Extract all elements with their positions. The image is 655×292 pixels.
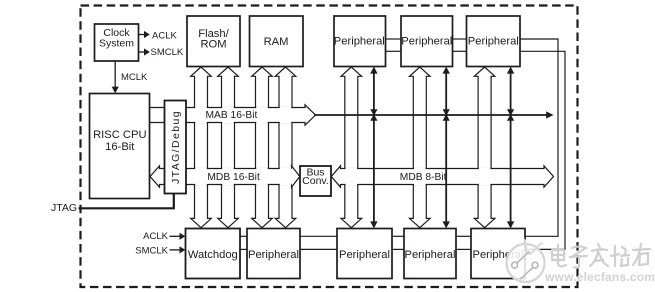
wire bottom chain lower seg1 [240, 248, 247, 250]
box Peripheral bot3 [404, 229, 456, 279]
svg-text:System: System [99, 37, 134, 49]
node open bus crossings (white patches) [195, 107, 490, 186]
svg-text:16-Bit: 16-Bit [105, 141, 135, 153]
wire memory bus arrow col4 (RAM-Peripheral) [275, 67, 296, 228]
wire bottom chain upper seg3 [392, 235, 404, 237]
svg-text:RAM: RAM [264, 36, 289, 48]
box Peripheral bot4 [471, 229, 525, 279]
box Flash/ROM [187, 16, 240, 67]
svg-text:www.elecfans.com: www.elecfans.com [544, 270, 655, 284]
node chip boundary (dashed border) [81, 6, 578, 288]
box RISC CPU 16-Bit [90, 94, 150, 199]
wire solid bus line col6 with arrowheads [370, 67, 377, 229]
wire MDB 16-Bit bus (hollow double arrow) [150, 166, 300, 187]
wire ACLK output arrow [139, 31, 150, 38]
svg-text:SMCLK: SMCLK [151, 47, 184, 58]
svg-text:Peripheral: Peripheral [401, 35, 452, 47]
wire memory bus arrow col1 (Flash-Watchdog) [191, 67, 212, 228]
wire top peripherals chain line upper [386, 38, 402, 40]
svg-text:Peripheral: Peripheral [405, 249, 456, 261]
wire bottom chain lower seg3 [392, 248, 404, 250]
wire bottom chain lower seg2 [300, 248, 337, 250]
box Peripheral top1 [334, 16, 386, 67]
wire wrap-around B (top P3 to bottom P4) [520, 51, 565, 249]
wire solid bus line col8 with arrowheads [443, 67, 450, 229]
wire MCLK line with down arrowhead [112, 61, 119, 93]
svg-text:Conv.: Conv. [302, 175, 329, 187]
wire top peripherals chain line lower [386, 50, 402, 52]
wire ACLK input arrow (Watchdog) [170, 233, 186, 240]
svg-text:JTAG/Debug: JTAG/Debug [170, 110, 182, 184]
wire JTAG connection [79, 194, 174, 209]
svg-text:Peripheral: Peripheral [339, 249, 390, 261]
svg-text:MDB 8-Bit: MDB 8-Bit [400, 172, 447, 183]
wire memory bus arrow col3 (RAM-Peripheral) [252, 67, 273, 228]
svg-text:JTAG: JTAG [51, 202, 77, 214]
svg-text:RISC CPU: RISC CPU [93, 129, 146, 141]
svg-text:ACLK: ACLK [143, 231, 168, 242]
wire peripheral bus arrow col9 [474, 67, 495, 228]
wire memory bus arrow col2 (Flash-Watchdog) [218, 67, 239, 228]
box Peripheral top2 [401, 16, 453, 67]
wire MAB solid line to right with arrowhead [314, 111, 554, 118]
wire bottom chain upper seg1 [240, 235, 247, 237]
svg-text:ACLK: ACLK [152, 30, 177, 41]
box JTAG/Debug [165, 101, 187, 194]
svg-text:MAB 16-Bit: MAB 16-Bit [206, 110, 258, 121]
watermark elecfans logo and text [507, 239, 655, 284]
svg-text:Peripheral: Peripheral [468, 35, 519, 47]
wire MAB 16-Bit bus (hollow arrow) [150, 105, 316, 125]
box Watchdog [186, 229, 241, 279]
svg-text:Peripheral: Peripheral [248, 249, 299, 261]
svg-text:Peripheral: Peripheral [334, 35, 385, 47]
wire top peripherals chain line lower 2 [453, 50, 467, 52]
svg-text:Watchdog: Watchdog [188, 249, 238, 261]
wire bottom chain lower seg4 [456, 248, 471, 250]
box Clock System [95, 24, 139, 61]
box RAM [250, 16, 304, 67]
svg-text:MCLK: MCLK [121, 72, 148, 83]
svg-text:MDB 16-Bit: MDB 16-Bit [207, 172, 260, 183]
wire peripheral bus arrow col7 [410, 67, 431, 228]
wire bottom chain upper seg4 [456, 235, 471, 237]
wire MDB 8-Bit bus (hollow double arrow) [331, 166, 553, 187]
wire top peripherals chain line upper 2 [453, 38, 467, 40]
wire SMCLK output arrow [139, 48, 150, 55]
box Peripheral bot1 [247, 229, 300, 279]
wire solid bus line col10 with arrowheads [507, 67, 514, 229]
wire peripheral bus arrow col5 [341, 67, 362, 228]
svg-text:ROM: ROM [200, 39, 226, 51]
box Bus Conv. [300, 166, 331, 196]
box Peripheral bot2 [337, 229, 392, 279]
wire SMCLK input arrow (Watchdog) [170, 246, 186, 253]
wire bottom chain upper seg2 [300, 235, 337, 237]
svg-text:SMCLK: SMCLK [135, 245, 168, 256]
box Peripheral top3 [467, 16, 521, 67]
wire wrap-around A (top P3 to bottom P4) [520, 39, 558, 236]
